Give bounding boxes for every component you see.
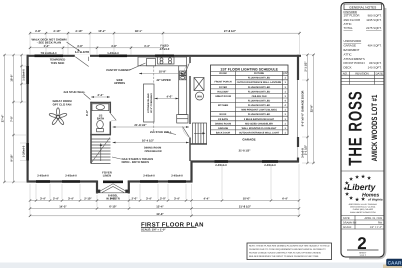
svg-text:14'-5": 14'-5" [59, 204, 67, 208]
svg-text:4'-8": 4'-8" [77, 45, 84, 48]
svg-text:- SEE DECK PLAN: - SEE DECK PLAN [37, 41, 61, 45]
stairs cut diagonal [92, 138, 111, 163]
svg-text:PANTRY CABINET: PANTRY CABINET [106, 68, 131, 72]
svg-text:MECHANICSVILLE, VA 23111: MECHANICSVILLE, VA 23111 [350, 206, 375, 209]
svg-text:10'-0": 10'-0" [11, 74, 14, 82]
svg-text:21'-8 1/2": 21'-8 1/2" [239, 204, 252, 208]
kitchen back door swing [184, 63, 189, 75]
bottom dim line C [30, 215, 299, 217]
svg-text:SCALE: 1/4" = 1'-0": SCALE: 1/4" = 1'-0" [141, 229, 166, 232]
bottom dim line B labels [59, 204, 252, 208]
svg-text:484 SQFT.: 484 SQFT. [368, 44, 382, 48]
porch recess left wall [96, 181, 98, 194]
revision table [341, 72, 384, 85]
svg-text:5-0 SLD/TR: 5-0 SLD/TR [75, 51, 89, 54]
svg-text:21'-8 1/2": 21'-8 1/2" [239, 150, 252, 153]
bottom dim line A labels [40, 196, 289, 200]
top wall window labels [41, 51, 120, 55]
svg-text:1-2/0x4-0: 1-2/0x4-0 [22, 145, 25, 157]
window top wall W1 [35, 54, 64, 57]
svg-text:1195 SQFT.: 1195 SQFT. [366, 18, 381, 22]
svg-text:27'-4": 27'-4" [1, 114, 5, 122]
svg-text:2 BULB BATHROOM LIGHT: 2 BULB BATHROOM LIGHT [244, 118, 275, 121]
svg-text:GENERAL NOTES: GENERAL NOTES [349, 5, 376, 9]
svg-text:UNFINISHED: UNFINISHED [344, 39, 362, 43]
svg-text:4'-8": 4'-8" [35, 29, 42, 33]
svg-text:9'-8": 9'-8" [110, 196, 117, 200]
svg-text:1/4" = 1'-0": 1/4" = 1'-0" [370, 226, 382, 229]
bottom dim line B [30, 208, 299, 210]
right dim line 1 [307, 55, 309, 163]
svg-text:PHONE (804) 746-4663: PHONE (804) 746-4663 [353, 208, 373, 211]
svg-text:CHANGES DUE TO CODE REQUIREMEN: CHANGES DUE TO CODE REQUIREMENTS AND MEC… [249, 248, 326, 251]
mud room wall [191, 143, 208, 145]
svg-text:DATE: DATE [376, 71, 383, 75]
top dim line 2 [30, 47, 163, 49]
svg-text:QTY: QTY [283, 72, 288, 75]
exterior top wall [27, 55, 302, 57]
svg-text:1/2 BATH: 1/2 BATH [218, 118, 228, 121]
svg-text:3'-4": 3'-4" [144, 45, 151, 48]
svg-text:10'-6": 10'-6" [243, 196, 251, 200]
svg-text:BATH: BATH [97, 118, 104, 121]
svg-text:LINEN: LINEN [103, 174, 111, 178]
svg-text:4'-10": 4'-10" [53, 29, 61, 33]
garage service door opening [297, 147, 299, 158]
kitchen side counter along garage wall [179, 66, 187, 115]
interior dim 16'-4 1/2" [113, 142, 190, 144]
svg-text:3'-4": 3'-4" [44, 45, 51, 48]
svg-text:FLUSH MOUNT LED: FLUSH MOUNT LED [248, 90, 271, 93]
svg-text:DINING ROOM: DINING ROOM [215, 122, 231, 125]
svg-text:10'-2": 10'-2" [98, 29, 106, 33]
refrigerator [177, 115, 188, 124]
svg-text:2'-1 1/2": 2'-1 1/2" [305, 61, 308, 72]
svg-text:THIS SIDE: THIS SIDE [51, 61, 65, 65]
svg-text:OUTDOOR ENTRANCE WALL LIGHT: OUTDOOR ENTRANCE WALL LIGHT [239, 131, 280, 134]
svg-text:FLUSH MOUNT LED: FLUSH MOUNT LED [248, 113, 271, 116]
general notes header box [344, 4, 382, 10]
svg-text:REVISION: REVISION [355, 71, 368, 75]
svg-text:4'-10": 4'-10" [75, 29, 83, 33]
left dim line 1 (total) [4, 55, 6, 182]
porch posts [97, 190, 100, 193]
interior dim arrowheads [91, 73, 189, 144]
kitchen island [144, 84, 155, 122]
svg-text:FRONT PORCH: FRONT PORCH [214, 81, 231, 84]
svg-text:UPPERS: UPPERS [114, 82, 125, 85]
porch recess right wall [128, 181, 130, 194]
water heater circle [196, 92, 204, 100]
svg-text:2'-4": 2'-4" [53, 196, 60, 200]
svg-text:RW: RW [378, 222, 383, 225]
svg-text:2175 SQFT.: 2175 SQFT. [366, 26, 382, 30]
svg-text:OPEN - BOTH SIDES: OPEN - BOTH SIDES [122, 160, 150, 164]
bath top wall [90, 102, 111, 104]
bath door swing [110, 113, 116, 120]
svg-text:DECK: DECK [344, 65, 352, 69]
svg-text:22'-9": 22'-9" [310, 104, 314, 112]
svg-text:42" UPPER: 42" UPPER [156, 79, 170, 82]
drawing title FIRST FLOOR PLAN [141, 221, 204, 231]
svg-text:MINI PENDANT LIGHT (ISLAND): MINI PENDANT LIGHT (ISLAND) [241, 109, 277, 112]
garage right wall lower [297, 137, 299, 147]
date/drawn/scale table [341, 216, 384, 230]
sliding door leaf [75, 57, 88, 67]
mud room door swing [183, 127, 190, 138]
svg-text:2-4/0x4-0: 2-4/0x4-0 [264, 164, 276, 167]
interior dim 21'-8 1/2" [113, 126, 190, 128]
right dim line 2 [313, 55, 315, 163]
top dim line 2 labels [44, 45, 151, 48]
svg-text:18'-1": 18'-1" [135, 29, 143, 33]
svg-text:MID SIZED CHANDELIER: MID SIZED CHANDELIER [245, 122, 273, 125]
svg-text:DRAWN BY:: DRAWN BY: [343, 222, 357, 225]
svg-text:WH: WH [197, 94, 202, 98]
pantry cabinet box [147, 59, 156, 66]
bath vanity [92, 104, 109, 111]
svg-text:2'-0": 2'-0" [160, 196, 167, 200]
svg-text:KITCHEN: KITCHEN [218, 104, 229, 107]
svg-text:FLUSH MOUNT LED: FLUSH MOUNT LED [248, 100, 271, 103]
svg-text:2'-0": 2'-0" [131, 196, 138, 200]
exterior bottom wall left section [27, 180, 98, 182]
svg-text:NO.: NO. [343, 71, 348, 75]
garage bottom wall [191, 160, 300, 162]
svg-text:4'-6": 4'-6" [166, 95, 173, 99]
svg-text:3'-4": 3'-4" [174, 196, 181, 200]
garage right wall upper [297, 55, 299, 80]
svg-text:NOTE: THESE PLANS ARE DEEMED A: NOTE: THESE PLANS ARE DEEMED ACCURATE BU… [249, 245, 330, 248]
bath width dim 2'-2" [91, 96, 110, 98]
island clearance dim 4'-6" [155, 98, 179, 100]
svg-text:GARAGE: GARAGE [242, 138, 255, 142]
svg-text:OPEN BELOW: OPEN BELOW [145, 150, 163, 153]
svg-text:2-4/0x4-0: 2-4/0x4-0 [37, 175, 49, 178]
title block outer border [341, 3, 384, 258]
svg-text:W/ 8" OVERHANG: W/ 8" OVERHANG [150, 93, 153, 113]
general notes list [344, 10, 382, 70]
svg-text:AMICK WOODS LOT #1: AMICK WOODS LOT #1 [371, 94, 380, 161]
svg-text:4'-4": 4'-4" [282, 196, 289, 200]
left extension lines [3, 55, 26, 182]
svg-text:WWW.LIBERTYHOMES.COM: WWW.LIBERTYHOMES.COM [350, 211, 376, 214]
left dim line 2 [13, 55, 15, 182]
house/garage shared wall [189, 57, 191, 63]
bottom wall window labels [37, 175, 183, 178]
house right side wall below garage [190, 161, 192, 183]
svg-text:13'-4": 13'-4" [156, 204, 164, 208]
svg-text:1 OF 7: 1 OF 7 [359, 254, 366, 257]
svg-text:SCALE:: SCALE: [343, 226, 352, 229]
toilet [97, 121, 104, 129]
bottom note box [247, 243, 332, 260]
svg-text:4'-8": 4'-8" [111, 45, 118, 48]
svg-text:2x6 STUD WALL: 2x6 STUD WALL [150, 130, 172, 134]
svg-text:3'-4": 3'-4" [68, 196, 75, 200]
svg-text:FLUSH MOUNT LED: FLUSH MOUNT LED [248, 104, 271, 107]
svg-text:GARAGE: GARAGE [344, 44, 356, 48]
svg-text:ATTACHMENTS: ATTACHMENTS [344, 57, 365, 61]
svg-text:4'-4": 4'-4" [203, 196, 210, 200]
bath bottom wall [90, 134, 111, 136]
svg-text:TOTAL: TOTAL [344, 26, 353, 30]
kitchen width dim 10'-9" [139, 73, 184, 75]
svg-text:BASEMENT: BASEMENT [344, 48, 360, 52]
kitchen soffit dashed line [153, 66, 155, 84]
divider above logo [341, 170, 384, 172]
exterior left wall [27, 55, 29, 183]
svg-text:3'-4": 3'-4" [40, 196, 47, 200]
Liberty Homes logo [343, 174, 383, 202]
svg-text:SHEET: SHEET [359, 251, 367, 254]
svg-text:CAAR: CAAR [388, 260, 402, 266]
window top wall fixed kitchen [155, 54, 174, 57]
range [158, 57, 175, 64]
porch gable roof lines [98, 184, 129, 193]
furnace (X-box) [194, 78, 204, 91]
svg-text:2'-1 1/2": 2'-1 1/2" [305, 144, 308, 155]
top dim line 2 ticks [29, 47, 164, 49]
left dim line 2 labels [11, 74, 14, 162]
front door unit in porch [103, 181, 123, 184]
CAAR logo chip [387, 259, 402, 266]
stairs up arrow [100, 144, 102, 161]
svg-text:WALL MOUNTED FLOODLIGHT: WALL MOUNTED FLOODLIGHT [242, 127, 277, 130]
svg-text:BACK DOOR: BACK DOOR [216, 131, 231, 134]
garage right wall bottom [297, 158, 299, 163]
bottom extension lines [30, 164, 299, 217]
top extension lines [30, 32, 300, 55]
windows garage bottom wall [215, 160, 229, 163]
ceiling fan [49, 108, 67, 125]
svg-text:2-4/0x4-0: 2-4/0x4-0 [65, 175, 77, 178]
svg-text:2-4/0x4-0: 2-4/0x4-0 [171, 175, 183, 178]
svg-text:2'-10": 2'-10" [84, 196, 92, 200]
svg-text:OUTDOOR ENTRANCE WALL LANTERN: OUTDOOR ENTRANCE WALL LANTERN [237, 81, 282, 84]
svg-text:9'-0"x8'-0" GARAGE DOOR: 9'-0"x8'-0" GARAGE DOOR [301, 91, 305, 127]
right extension lines [302, 55, 315, 163]
window left wall lower [26, 143, 29, 161]
sliding door opening top wall [75, 55, 90, 57]
svg-text:21'-8 1/2": 21'-8 1/2" [134, 123, 147, 127]
bottom page strip [0, 263, 402, 268]
svg-text:1-2/0x4-0: 1-2/0x4-0 [22, 69, 25, 81]
svg-text:of Virginia: of Virginia [368, 197, 383, 201]
svg-text:3'-4": 3'-4" [146, 196, 153, 200]
top dim line 1 [30, 32, 300, 34]
svg-text:FLUSH MOUNT LED: FLUSH MOUNT LED [248, 77, 271, 80]
svg-text:16'-4 1/2": 16'-4 1/2" [142, 139, 155, 143]
window left wall upper [26, 66, 29, 84]
svg-text:FLUSH MOUNT LED: FLUSH MOUNT LED [248, 86, 271, 89]
kitchen counter along top wall [138, 57, 187, 66]
top dim line 1 ticks [29, 32, 301, 34]
svg-text:THE ROSS: THE ROSS [345, 90, 366, 165]
svg-text:10'-9": 10'-9" [159, 70, 167, 74]
svg-text:BUILDER RESERVES THE RIGHT TO: BUILDER RESERVES THE RIGHT TO MAKE CHANG… [249, 255, 319, 258]
svg-text:2-4/0x4-0: 2-4/0x4-0 [143, 175, 155, 178]
svg-text:GARAGE: GARAGE [218, 127, 229, 130]
svg-text:7'-0": 7'-0" [11, 115, 14, 122]
svg-text:ROOM: ROOM [219, 72, 226, 75]
garage door (thin line in opening) [297, 80, 299, 137]
porch front wall [96, 192, 130, 194]
top dim line 1 labels [35, 29, 237, 33]
svg-text:FIXTURE: FIXTURE [254, 72, 264, 75]
svg-text:GREAT ROOM: GREAT ROOM [215, 95, 231, 98]
window top wall W2 [99, 54, 127, 57]
svg-text:27'-8 1/2": 27'-8 1/2" [224, 29, 237, 33]
bath left wall [90, 102, 92, 164]
svg-text:OPT CLG FAN: OPT CLG FAN [53, 102, 72, 106]
svg-text:34'-8": 34'-8" [156, 213, 164, 216]
svg-text:CEILING FAN: CEILING FAN [252, 95, 267, 98]
svg-text:2'-2": 2'-2" [97, 93, 104, 97]
svg-text:1-4/0x4-0: 1-4/0x4-0 [107, 52, 119, 55]
svg-text:HALLWAY: HALLWAY [217, 90, 229, 93]
svg-text:NOOK: NOOK [220, 113, 227, 116]
svg-text:KITCHEN ISLAND: KITCHEN ISLAND [147, 93, 150, 113]
svg-text:6'-8": 6'-8" [85, 109, 89, 116]
svg-text:PLEASE CONSULT SALES CONTRACT: PLEASE CONSULT SALES CONTRACT FOR ACTUAL… [249, 251, 321, 254]
kitchen sink [180, 71, 186, 75]
svg-text:1ST FLOOR LIGHTING SCHEDULE: 1ST FLOOR LIGHTING SCHEDULE [220, 67, 278, 71]
svg-text:7/0 2-6/0x4-0: 7/0 2-6/0x4-0 [41, 52, 57, 55]
main stairs treads [91, 139, 111, 164]
windows bottom wall [36, 180, 50, 183]
svg-text:4936 GREEN VALLEY PARKWAY: 4936 GREEN VALLEY PARKWAY [349, 203, 378, 206]
svg-text:Liberty: Liberty [347, 182, 377, 192]
svg-text:140 SQFT.: 140 SQFT. [368, 65, 382, 69]
title block shadow [349, 8, 386, 259]
svg-text:2-4/0x4-0: 2-4/0x4-0 [215, 164, 227, 167]
svg-text:FOYER: FOYER [219, 86, 227, 89]
bottom dim line A [30, 200, 299, 202]
mud room stairs to basement [193, 123, 207, 144]
svg-text:APRIL 15, 2005: APRIL 15, 2005 [364, 217, 382, 220]
left dim line 3 [21, 55, 23, 102]
exterior bottom wall right section [128, 180, 193, 182]
svg-text:6'-10": 6'-10" [109, 204, 117, 208]
bath right wall [109, 102, 111, 113]
tan strip bottom-right [383, 265, 402, 268]
svg-text:9'-10": 9'-10" [11, 154, 14, 162]
address block [349, 203, 378, 214]
svg-text:2x6 STUD WALL: 2x6 STUD WALL [64, 90, 86, 94]
svg-text:ATTIC: ATTIC [344, 52, 352, 56]
svg-text:DATE:: DATE: [343, 217, 350, 220]
